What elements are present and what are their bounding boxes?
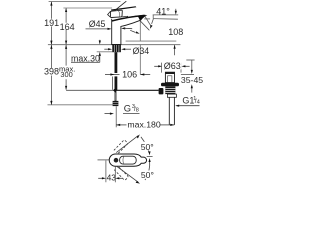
top view: aerator dot bbox=[114, 158, 119, 163]
108 bottom arrow bbox=[174, 45, 176, 55]
waste threaded body bbox=[165, 86, 175, 94]
dimension Ø63 bbox=[154, 65, 159, 67]
svg-text:G: G bbox=[124, 102, 131, 113]
dimension 35-45 top reference bbox=[186, 59, 194, 61]
swing line up with arrowhead bbox=[116, 136, 138, 153]
spout top edge thick bbox=[112, 15, 145, 21]
deck surface line bbox=[48, 44, 181, 46]
water stream extension line upper bbox=[139, 21, 141, 41]
41 degree vertical stub with down arrowhead bbox=[175, 9, 177, 13]
corner vertical stub bbox=[152, 15, 154, 19]
dimension 43 left extension bbox=[105, 161, 107, 183]
arc top 50deg bbox=[141, 137, 149, 153]
text max.180 bbox=[127, 120, 159, 128]
tailpipe collar bbox=[167, 94, 176, 97]
rod junction diamond bbox=[113, 89, 117, 93]
dashed lever swung down bbox=[114, 166, 128, 180]
supply pipe narrow continuation bbox=[115, 90, 117, 101]
max.180 dimension line bbox=[116, 124, 126, 126]
waste upper cylinder bbox=[165, 72, 174, 82]
reference line top (lever top) bbox=[49, 1, 121, 3]
lever left pointed cap bbox=[108, 11, 111, 17]
svg-text:Ø45: Ø45 bbox=[89, 19, 106, 29]
pop-up rod thin left part bbox=[66, 89, 114, 91]
top view: faucet body outline with snout bbox=[109, 154, 146, 166]
waste flange bbox=[161, 83, 179, 87]
41 degree thin ray from tip bbox=[145, 16, 151, 25]
G1 1/4 underline bbox=[176, 105, 199, 107]
deck bottom line bbox=[97, 51, 113, 53]
svg-text:50°: 50° bbox=[141, 170, 154, 180]
faucet lever raised diagonal bbox=[114, 1, 126, 11]
faucet lever bar bbox=[111, 6, 136, 10]
outlet level reference line right segment bbox=[153, 18, 178, 21]
max.30 underline bbox=[71, 61, 100, 63]
reference line spout top bbox=[63, 7, 112, 9]
arc bottom 50deg bbox=[145, 161, 150, 181]
cartridge box bbox=[110, 10, 122, 17]
shank highlight stripes bbox=[113, 45, 115, 52]
swing line down with arrowhead bbox=[117, 167, 138, 183]
svg-text:43: 43 bbox=[107, 173, 117, 183]
svg-text:106: 106 bbox=[122, 70, 137, 80]
outlet level reference line left segment bbox=[144, 18, 150, 20]
svg-text:41°: 41° bbox=[156, 7, 170, 17]
second hose line bbox=[111, 77, 113, 90]
dimension 191/398 vertical line bbox=[50, 2, 52, 105]
text 43 bbox=[107, 174, 115, 180]
max.30 lower arrow bbox=[99, 54, 101, 62]
dimension max.180 left extension bbox=[115, 106, 117, 127]
G3/8 underline bbox=[123, 113, 140, 115]
35-45 lower vertical with up arrowhead bbox=[191, 86, 193, 93]
pop-up rod thick part bbox=[114, 89, 159, 91]
svg-text:Ø63: Ø63 bbox=[164, 61, 181, 71]
41 degree arrow shaft bbox=[152, 19, 154, 24]
arrowheads 191/398 line bbox=[50, 2, 52, 105]
pop-up plug stem bbox=[168, 76, 172, 83]
spout tip wedge bbox=[138, 15, 148, 20]
aerator pointer arrow bbox=[130, 30, 135, 32]
neck top edge bbox=[122, 16, 127, 19]
svg-text:300: 300 bbox=[60, 70, 72, 79]
Ø63 extension lines bbox=[161, 63, 163, 73]
43 dimension line with arrows bbox=[98, 177, 103, 179]
dimension max.30 upper arrow bbox=[99, 40, 101, 42]
tailpipe bbox=[168, 97, 170, 125]
supply pipe lower segment bbox=[115, 76, 118, 90]
supply pipe upper segment bbox=[115, 52, 118, 73]
svg-text:50°: 50° bbox=[141, 142, 154, 152]
svg-text:8: 8 bbox=[136, 108, 139, 114]
arrowheads 164/max300 line bbox=[65, 8, 67, 90]
G3/8 nut block bbox=[113, 101, 119, 106]
text 106 bbox=[121, 70, 139, 78]
35-45 middle line bbox=[181, 73, 194, 75]
cartridge box inner curve bbox=[118, 11, 120, 17]
waste cylinder top dark band bbox=[165, 72, 175, 74]
43 right extension bbox=[114, 167, 116, 183]
Ø45 right-pointing arrowhead bbox=[108, 28, 112, 30]
shank dark block under deck bbox=[112, 45, 121, 52]
dimension Ø45 leader bbox=[86, 28, 110, 30]
dimension 106 line bbox=[105, 74, 120, 76]
svg-text:max.180: max.180 bbox=[127, 119, 160, 129]
aerator face diagonal bbox=[140, 21, 149, 31]
svg-text:108: 108 bbox=[168, 27, 183, 37]
svg-text:164: 164 bbox=[60, 22, 75, 32]
rod ball fitting bbox=[159, 88, 164, 94]
dimension Ø34 bbox=[104, 48, 109, 50]
water stream extension line lower bbox=[139, 45, 141, 75]
dashed lever swung up bbox=[114, 140, 128, 154]
41 degree arrowhead bbox=[150, 25, 153, 29]
faucet body and spout outline bbox=[112, 15, 145, 44]
41 degree horizontal ray bbox=[153, 14, 179, 16]
35-45 upper vertical with down arrowhead bbox=[191, 60, 193, 71]
text Ø63 bbox=[163, 61, 182, 69]
hose end reference line bbox=[48, 104, 114, 106]
basin rim line bbox=[126, 40, 177, 42]
svg-text:max.30: max.30 bbox=[71, 54, 100, 64]
top view: lever rounded rect bbox=[120, 156, 137, 164]
right axis stub bbox=[147, 156, 153, 158]
top view: left axis stub bbox=[98, 159, 110, 161]
svg-text:Ø34: Ø34 bbox=[133, 46, 150, 56]
dimension 164/max300 vertical line bbox=[65, 8, 67, 89]
text 50deg top bbox=[140, 142, 154, 151]
svg-text:35-45: 35-45 bbox=[181, 75, 203, 85]
G1 1/4 left arrowhead bbox=[175, 105, 179, 107]
G3/8 leader arrow bbox=[105, 113, 112, 115]
text 50deg bottom bbox=[140, 170, 154, 178]
Ø45 inner arrowhead bbox=[121, 27, 125, 29]
svg-text:4: 4 bbox=[197, 100, 200, 106]
thread white lines bbox=[165, 87, 175, 89]
top view: lever inner line bbox=[122, 157, 125, 164]
svg-text:191: 191 bbox=[44, 18, 59, 28]
svg-text:398: 398 bbox=[44, 67, 59, 77]
